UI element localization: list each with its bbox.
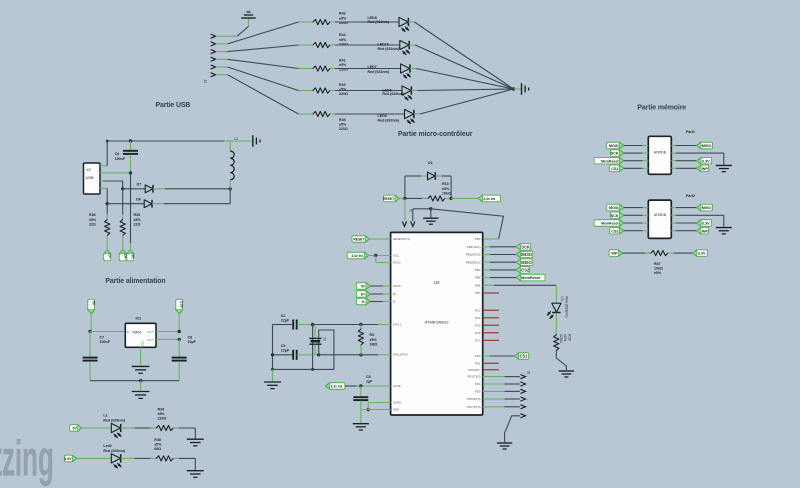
ground J3	[497, 442, 512, 444]
svg-text:R42: R42	[339, 12, 346, 16]
net flag CS2 (U2)	[483, 269, 490, 271]
net flag MemReset (Part1)	[594, 157, 624, 164]
J3 pin	[520, 375, 525, 379]
wire X2 pin3 to D7/R35	[104, 180, 123, 182]
net flag 5V (led L1)	[70, 425, 82, 432]
svg-text:AVCC: AVCC	[393, 261, 401, 265]
LED LED6 Red (633nm)	[405, 109, 414, 118]
svg-text:5V: 5V	[361, 285, 366, 289]
J3 pin 6	[520, 414, 525, 418]
junction loop bottom	[311, 368, 314, 371]
resistor R37 10kΩ	[651, 251, 668, 256]
svg-text:D-: D-	[108, 254, 112, 257]
svg-text:CS2: CS2	[521, 267, 530, 272]
wire X2 pin2 to C6 and flag	[104, 172, 131, 174]
svg-text:D6: D6	[136, 197, 141, 201]
net flag 3.3V (alim)	[176, 299, 183, 314]
svg-text:Led2: Led2	[103, 444, 111, 448]
svg-text:5V: 5V	[92, 301, 96, 306]
wire C2/C3 left vertical	[272, 325, 274, 370]
junction rail corner	[106, 140, 109, 143]
svg-text:3.3V: 3.3V	[702, 159, 710, 163]
svg-text:J1: J1	[409, 208, 413, 212]
svg-text:3.3V: 3.3V	[64, 457, 72, 461]
svg-text:WP: WP	[702, 229, 709, 233]
svg-text:fritzing: fritzing	[0, 432, 54, 487]
svg-text:PB2(MOSI): PB2(MOSI)	[466, 253, 481, 257]
svg-text:3.3V: 3.3V	[702, 222, 710, 226]
svg-text:UGND: UGND	[393, 401, 402, 405]
svg-text:Red (633nm): Red (633nm)	[368, 20, 390, 24]
wire crystal case loop	[313, 330, 334, 369]
svg-text:PD1: PD1	[475, 361, 481, 365]
svg-text:VCC: VCC	[393, 254, 399, 258]
J3 pin	[520, 397, 525, 401]
svg-text:GND: GND	[141, 341, 145, 347]
capacitor C3 22pF	[292, 350, 294, 360]
wire D7 anode	[123, 188, 146, 190]
wire RESET to U2	[370, 238, 391, 240]
net flag MISO (U2)	[483, 261, 490, 263]
svg-text:MISO: MISO	[702, 206, 712, 210]
wire IC2 GND to ground	[140, 347, 142, 366]
net flag SCK (Part2)	[611, 212, 624, 219]
svg-text:Red (633nm): Red (633nm)	[368, 70, 390, 74]
svg-text:PD2(INT): PD2(INT)	[468, 368, 480, 372]
svg-text:R38: R38	[154, 438, 161, 442]
wire D6 cathode to L2 node	[152, 203, 164, 205]
wire R37 to 3.3V	[668, 252, 674, 254]
svg-text:78A02: 78A02	[132, 330, 142, 334]
wire MemReset to AT45DB	[624, 222, 643, 224]
svg-text:LED7: LED7	[368, 65, 377, 69]
junction crystal bottom	[317, 353, 320, 356]
junction C6 top	[129, 139, 132, 142]
wire D1 riser left	[404, 176, 406, 198]
resistor R35 22Ω	[120, 220, 125, 236]
svg-text:22Ω: 22Ω	[89, 223, 96, 227]
wire R39 to ground	[556, 351, 566, 371]
U2 pin UCAP	[390, 385, 392, 387]
net flag CS2 (Part2)	[610, 227, 624, 234]
wire U2 to J3 pin	[483, 383, 505, 385]
svg-text:Red (633nm): Red (633nm)	[378, 47, 400, 51]
net flag 3.3V (led Led2)	[64, 455, 76, 462]
junction VCC/AVCC	[374, 254, 377, 257]
connector J2	[211, 34, 216, 38]
net flag CS1 (Part1)	[610, 165, 624, 172]
svg-text:PB0: PB0	[475, 237, 481, 241]
LED Led2 Red (633nm)	[111, 454, 120, 463]
wire R13 to 3.3v int flag	[451, 197, 478, 199]
svg-text:R37: R37	[654, 262, 661, 266]
wire MemReset to AT45DB	[624, 160, 643, 162]
wire CS2 to AT45DB	[624, 230, 643, 232]
svg-text:3.3V: 3.3V	[180, 301, 184, 309]
net flag CS1 (U2)	[483, 355, 490, 357]
svg-text:R46: R46	[339, 118, 346, 122]
voltage regulator IC2	[125, 323, 156, 347]
svg-text:C7: C7	[100, 335, 105, 339]
svg-text:MISO: MISO	[702, 144, 712, 148]
wire U2 to J3 pin	[483, 390, 505, 392]
svg-text:SCK: SCK	[611, 214, 619, 218]
wire WP to R37	[623, 252, 645, 254]
svg-text:±5%: ±5%	[134, 218, 142, 222]
svg-text:D+: D+	[361, 293, 365, 297]
capacitor C5 1µF	[360, 386, 362, 397]
ground J1	[423, 217, 438, 219]
capacitor C8 10µF	[178, 339, 180, 357]
junction D6 anode	[106, 202, 109, 205]
wire J2 pin2 to row 1	[216, 43, 228, 45]
wire to ground	[430, 209, 432, 218]
svg-text:GND: GND	[393, 408, 399, 412]
LED LED10 Red (633nm)	[400, 40, 409, 49]
resistor R38 68Ω	[156, 456, 173, 461]
wire L1 to R34	[121, 427, 135, 429]
svg-text:RESET: RESET	[383, 197, 394, 201]
diode D6	[144, 200, 152, 208]
net flag D- (U2)	[356, 298, 370, 305]
svg-text:Partie mémoire: Partie mémoire	[637, 104, 686, 111]
wire LED10 to ground node	[409, 44, 415, 46]
net flag MemReset (U2)	[483, 277, 490, 279]
wire R43 to LED9	[330, 90, 335, 92]
junction GND row	[367, 408, 370, 411]
junction D7 anode	[121, 187, 124, 190]
svg-text:MemReset: MemReset	[601, 159, 619, 163]
svg-text:ATMEGA8U2: ATMEGA8U2	[425, 320, 450, 325]
ground R39	[559, 370, 574, 372]
net flag WP (Part1)	[671, 167, 676, 169]
svg-text:LED6: LED6	[378, 114, 387, 118]
svg-text:PB5: PB5	[475, 276, 481, 280]
svg-text:UVCC: UVCC	[393, 284, 401, 288]
net flag 5V (UVCC)	[356, 283, 370, 290]
svg-text:XTAL1: XTAL1	[393, 323, 402, 327]
ground IC2	[132, 365, 150, 367]
junction OUT2	[178, 338, 181, 341]
wire R44 to LED10	[330, 44, 335, 46]
svg-text:±5%: ±5%	[154, 442, 162, 446]
svg-text:PD3(TXD): PD3(TXD)	[467, 375, 480, 379]
svg-text:CS2: CS2	[611, 229, 618, 233]
J1 pin 2	[411, 221, 415, 226]
wire R36 to flag D-	[106, 236, 108, 251]
svg-text:MOSI: MOSI	[609, 144, 619, 148]
resistor R42 220Ω	[313, 19, 330, 24]
wire XTAL2 to U2	[361, 354, 378, 356]
wire C5 to ground	[360, 410, 362, 424]
svg-text:CS1: CS1	[520, 354, 529, 359]
U2 pin UGND	[390, 402, 392, 404]
svg-text:XTAL2/PC0: XTAL2/PC0	[393, 353, 408, 357]
svg-text:Red (633nm): Red (633nm)	[378, 118, 400, 122]
svg-text:Partie micro-contrôleur: Partie micro-contrôleur	[398, 131, 473, 138]
wire XTAL1 to U2	[361, 324, 378, 326]
wire SCK to AT45DB	[624, 214, 643, 216]
wire X2 pin1 to 5V rail	[104, 165, 108, 167]
svg-text:CS1: CS1	[611, 167, 618, 171]
wire D1 riser right	[450, 176, 452, 198]
svg-text:1µF: 1µF	[366, 380, 373, 384]
U2 pin AVCC	[390, 262, 392, 264]
svg-text:PC5: PC5	[475, 323, 481, 327]
svg-text:R35: R35	[134, 213, 141, 217]
junction left rail	[271, 368, 274, 371]
svg-text:J3: J3	[527, 371, 531, 375]
wire R35 to flag D+	[122, 236, 124, 251]
svg-text:PC7: PC7	[475, 339, 481, 343]
ground Part2	[716, 227, 732, 229]
ground Part1	[716, 164, 732, 166]
ground USB top	[252, 135, 254, 147]
IC U2 ATMEGA8U2	[391, 232, 483, 415]
svg-text:R44: R44	[339, 33, 346, 37]
resistor R46 220Ω	[313, 111, 330, 116]
resistor R41 220Ω	[313, 66, 330, 71]
svg-text:R36: R36	[89, 213, 96, 217]
resistor R44 220Ω	[313, 42, 330, 47]
svg-text:IC2: IC2	[136, 317, 142, 321]
wire MOSI to AT45DB	[624, 145, 643, 147]
svg-text:C8: C8	[188, 335, 193, 339]
inductor L2	[229, 141, 231, 151]
svg-text:±5%: ±5%	[442, 187, 450, 191]
net flag RESET (U2)	[352, 236, 370, 243]
svg-text:RESET(PC1): RESET(PC1)	[393, 237, 410, 241]
junction R13 left	[403, 197, 406, 200]
svg-text:±5%: ±5%	[654, 271, 662, 275]
capacitor C6 100nF	[130, 141, 132, 150]
junction R3 bottom	[359, 353, 362, 356]
svg-text:OUT: OUT	[147, 338, 153, 342]
junction rail ground	[139, 379, 142, 382]
LED L1 Red (633nm)	[111, 423, 120, 432]
wire R36 branch	[106, 204, 108, 214]
junction LED common node	[512, 87, 515, 90]
wire RESET to J1 pin1	[404, 198, 406, 221]
net flag MOSI (Part2)	[606, 204, 623, 210]
U2 pin XTAL1	[390, 324, 392, 326]
wire LED8 to ground node	[408, 21, 414, 23]
diode D7	[145, 185, 153, 193]
wire UGND	[368, 402, 390, 404]
net flag 3.3v int. (VCC)	[347, 252, 369, 259]
svg-text:PB6: PB6	[475, 283, 481, 287]
wire bottom rail	[90, 380, 179, 382]
wire Led2 to R38	[121, 457, 135, 459]
svg-text:C6: C6	[115, 152, 120, 156]
net flag MISO (Part1)	[671, 145, 676, 147]
wire D1 left	[405, 175, 421, 177]
svg-text:PB1(SCK): PB1(SCK)	[467, 245, 480, 249]
svg-text:UCAP: UCAP	[393, 384, 401, 388]
wire U2 to J3 pin	[483, 398, 505, 400]
U2 pin VCC	[390, 255, 392, 257]
svg-text:MemReset: MemReset	[601, 222, 619, 226]
wire LED6 to ground node	[414, 113, 420, 115]
wire LED9 to ground node	[411, 90, 417, 92]
svg-text:3.3v int.: 3.3v int.	[331, 385, 343, 389]
wire R35 branch	[122, 189, 124, 214]
svg-text:PD7(CTS): PD7(CTS)	[467, 405, 480, 409]
wire 3.3v int to UCAP	[345, 385, 357, 387]
junction OUT1	[178, 330, 181, 333]
svg-text:3.3v int.: 3.3v int.	[483, 197, 495, 201]
svg-text:22Ω: 22Ω	[134, 223, 141, 227]
wire J1 pin2 to ground node	[412, 209, 414, 221]
svg-text:R13: R13	[442, 182, 449, 186]
wire 3.3v int to VCC/AVCC	[369, 255, 391, 257]
net flag MemReset (Part2)	[594, 220, 624, 227]
svg-text:PC4: PC4	[475, 316, 481, 320]
svg-text:Part1: Part1	[686, 130, 695, 134]
svg-text:3.3V: 3.3V	[698, 252, 706, 256]
svg-text:Red (633nm): Red (633nm)	[103, 449, 125, 453]
svg-text:C3: C3	[281, 344, 286, 348]
svg-text:AT45DB: AT45DB	[654, 213, 667, 217]
svg-text:10kΩ: 10kΩ	[654, 267, 663, 271]
wire 3.3V vertical	[178, 314, 180, 332]
svg-text:WP: WP	[702, 167, 709, 171]
wire C3 to crystal node	[307, 354, 319, 356]
svg-text:Red (633nm): Red (633nm)	[564, 297, 568, 318]
junction left XTAL2	[271, 353, 274, 356]
svg-text:WP: WP	[611, 252, 618, 256]
svg-text:1MΩ: 1MΩ	[370, 343, 378, 347]
wire J3 pin6 to ground	[505, 416, 520, 442]
svg-text:±5%: ±5%	[89, 218, 97, 222]
capacitor C2 22pF	[292, 320, 294, 330]
svg-text:3.3v int.: 3.3v int.	[351, 254, 363, 258]
svg-text:22pF: 22pF	[281, 349, 290, 353]
U2 pin D-	[390, 301, 392, 303]
U2 pin UVCC	[390, 285, 392, 287]
IC AT45DB Part1	[648, 136, 671, 174]
net flag WP (Part2)	[671, 230, 676, 232]
svg-text:100nF: 100nF	[115, 157, 126, 161]
resistor R39 220Ω	[554, 335, 559, 351]
wire flag to L1	[82, 427, 111, 429]
wire LED7 to ground node	[410, 68, 416, 70]
net flag 3.3v int. (UCAP)	[325, 383, 345, 390]
wire R42 to LED8	[330, 21, 335, 23]
svg-text:IN: IN	[127, 330, 130, 334]
svg-text:X2: X2	[86, 167, 91, 172]
wire IC2 OUT2	[156, 338, 179, 340]
svg-text:R41: R41	[339, 59, 346, 63]
net flag 5V (alim)	[88, 299, 95, 314]
wire D6 anode	[107, 203, 144, 205]
ground crystal	[264, 381, 281, 383]
wire rail to ground	[272, 369, 274, 381]
svg-text:SCK: SCK	[611, 152, 619, 156]
net flag D+ (USB)	[119, 250, 126, 261]
wire D7 cathode to L2	[153, 188, 165, 190]
wire J2 pin6 to row 5	[216, 74, 228, 76]
resistor R13 10kΩ	[428, 196, 445, 201]
wire U2 to J3 pin	[483, 376, 505, 378]
wire crystal ground rail	[273, 368, 313, 370]
svg-text:MemReset: MemReset	[521, 276, 541, 280]
capacitor C7 100nF	[89, 332, 91, 358]
svg-text:D-: D-	[362, 300, 366, 304]
wire U2 to J3 pin	[483, 406, 505, 408]
wire J2 pin4 to row 3	[216, 58, 228, 60]
wire D1 right	[435, 175, 442, 177]
svg-text:PD6(RTS): PD6(RTS)	[467, 397, 480, 401]
wire R46 to LED6	[330, 113, 335, 115]
net flag 3.3V (Part1)	[671, 160, 676, 162]
wire GND row	[361, 409, 391, 411]
wire J2 pin1 to ground	[216, 35, 237, 37]
LED LED8 Red (633nm)	[399, 17, 408, 26]
svg-text:PD4: PD4	[475, 382, 481, 386]
svg-text:RESET: RESET	[353, 238, 364, 242]
svg-text:MOSI: MOSI	[609, 206, 619, 210]
wire SCK-row to ground (Part1)	[671, 152, 676, 154]
wire flag to Led2	[77, 457, 112, 459]
net flag 3.3V (Part2)	[671, 222, 676, 224]
svg-text:100nF: 100nF	[100, 340, 111, 344]
resistor R36 22Ω	[105, 220, 110, 236]
J1 pin 1	[402, 221, 406, 226]
svg-text:PD5: PD5	[475, 390, 481, 394]
LED L5 Red (633nm)	[552, 303, 561, 312]
svg-text:±5%: ±5%	[339, 123, 347, 127]
svg-text:Part2: Part2	[686, 194, 695, 198]
resistor R3 1MΩ	[360, 325, 362, 330]
svg-text:D+: D+	[123, 254, 127, 258]
net flag MISO (Part2)	[671, 207, 676, 209]
svg-text:68Ω: 68Ω	[154, 447, 161, 451]
ground C5	[353, 423, 369, 425]
svg-text:PB3(MISO): PB3(MISO)	[466, 260, 481, 264]
ground LED common	[521, 83, 523, 95]
resistor R34 220Ω	[156, 425, 173, 430]
svg-text:±5%: ±5%	[339, 63, 347, 67]
connector X2 USB	[84, 163, 101, 194]
J3 pin	[520, 389, 525, 393]
svg-text:L1: L1	[103, 414, 107, 418]
svg-text:Red (633nm): Red (633nm)	[382, 92, 404, 96]
svg-text:MOSI: MOSI	[521, 252, 531, 257]
net flag 5V (USB)	[127, 250, 134, 261]
net flag WP (R37)	[609, 250, 623, 257]
U2 pin RESET(PC1)	[390, 238, 392, 240]
net flag D+ (U2)	[356, 291, 370, 298]
svg-text:220Ω: 220Ω	[339, 127, 348, 131]
svg-text:AT45DB: AT45DB	[654, 151, 667, 155]
ground R38	[187, 470, 204, 472]
J3 pin	[520, 382, 525, 386]
svg-text:L5: L5	[560, 297, 564, 301]
net flag D- (USB)	[104, 250, 111, 261]
svg-text:±5%: ±5%	[339, 38, 347, 42]
wire 5V to UVCC	[370, 285, 382, 287]
svg-text:PB7: PB7	[475, 291, 481, 295]
svg-text:R34: R34	[158, 408, 165, 412]
wire SCK-row to ground (Part2)	[671, 214, 676, 216]
U2 pin GND	[390, 409, 392, 411]
svg-text:Partie alimentation: Partie alimentation	[105, 278, 165, 285]
svg-text:22pF: 22pF	[281, 319, 290, 323]
net flag 3.3V (R37)	[693, 250, 708, 257]
J3 pin	[520, 405, 525, 409]
wire PB6 to L5	[483, 284, 494, 286]
